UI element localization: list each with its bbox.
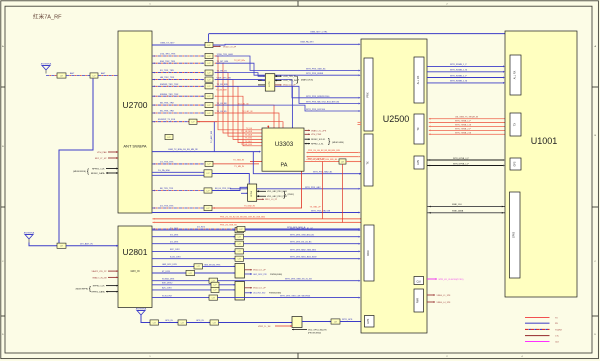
row B39/B4_TRX_TRX dashed wire bbox=[153, 95, 155, 97]
wire PRX_2G line2 bbox=[153, 222, 155, 224]
wire DIV_ANT to U2801 bbox=[66, 245, 118, 247]
svg-text:U2801: U2801 bbox=[122, 247, 147, 257]
wire ANT1 to FL2701 (dashed) bbox=[46, 75, 57, 77]
row B8_TRX_TRX dashed wire bbox=[153, 104, 155, 106]
inductor L2815 bbox=[235, 256, 244, 261]
wire PRX_2G line1 bbox=[153, 218, 155, 220]
wire WTR_RXMB_1_M bbox=[427, 82, 503, 84]
svg-text:TX_LB2_IN: TX_LB2_IN bbox=[242, 111, 253, 113]
arrow out of filter bbox=[215, 86, 216, 87]
wire DRX cont bbox=[244, 243, 359, 245]
arrow out of filter bbox=[215, 55, 216, 56]
wire WTR_GPS_1_P bbox=[427, 165, 503, 167]
wire DRX row 4G_RX2 top bbox=[153, 228, 155, 230]
wire DRX cont bbox=[244, 236, 359, 238]
legend CLK line bbox=[525, 341, 550, 343]
row LB_TRX dashed bbox=[153, 190, 155, 192]
pin VPA_2G bbox=[108, 151, 118, 153]
svg-text:PWDN(GSM): PWDN(GSM) bbox=[269, 293, 281, 295]
filter FL2707 bbox=[204, 170, 212, 177]
inductor L2803 bbox=[211, 287, 219, 292]
wire red row208 to PA bottom bbox=[212, 171, 302, 208]
wire trunk TX_ANT_SW vertical bbox=[253, 152, 361, 174]
pin VREG_L4 bbox=[427, 301, 435, 303]
svg-text:VDD2_LO_2P: VDD2_LO_2P bbox=[253, 270, 266, 272]
wire red TX route to PA top bbox=[215, 113, 280, 128]
svg-text:L27: L27 bbox=[238, 259, 241, 261]
pin VREG_L1 bbox=[427, 294, 435, 296]
svg-text:WTR_TXMB_2_P: WTR_TXMB_2_P bbox=[455, 128, 472, 130]
wire DRX row B2C_DRX bbox=[152, 250, 235, 252]
svg-text:WTR_PRX_GB2: WTR_PRX_GB2 bbox=[305, 187, 321, 189]
zone tick right bbox=[592, 86, 598, 88]
wire blue after FL2708 bbox=[212, 187, 247, 190]
svg-text:L27: L27 bbox=[93, 75, 96, 77]
wire blue to L2702 bbox=[215, 73, 265, 77]
wire red TX route 4 bbox=[215, 86, 262, 142]
wire into U2806 bbox=[203, 265, 236, 267]
svg-text:2G_PA_EN0: 2G_PA_EN0 bbox=[158, 169, 171, 172]
svg-text:WTR_RXMB_1_P: WTR_RXMB_1_P bbox=[450, 64, 467, 66]
wire PRX route WTR_PRX_B2/B25/2100 bbox=[216, 80, 359, 98]
arrow into filter bbox=[203, 86, 204, 88]
wire DRX row GB3_DRX bbox=[152, 265, 194, 267]
arrow out of filter bbox=[215, 72, 216, 73]
svg-text:TX_ANT_SW: TX_ANT_SW bbox=[210, 131, 213, 143]
wire PA out PRX1 bbox=[307, 152, 309, 154]
pin stub left L2702 bbox=[258, 79, 265, 81]
svg-text:WTR_RXMB_1_M: WTR_RXMB_1_M bbox=[450, 70, 467, 72]
pin VBAT2_2G_2P8 bbox=[305, 129, 310, 131]
svg-text:(MDM RFFE): (MDM RFFE) bbox=[73, 171, 86, 173]
wire vertical B28 to GSM_TX bbox=[213, 122, 215, 152]
svg-text:GPIO: GPIO bbox=[513, 232, 516, 238]
svg-text:B8_TRX_TRX: B8_TRX_TRX bbox=[160, 103, 174, 105]
wire red row121 to PA top bbox=[217, 122, 283, 129]
wire cont row229 bbox=[245, 228, 359, 230]
svg-text:L27: L27 bbox=[208, 63, 211, 65]
port ALL RX U2500 bbox=[414, 57, 424, 103]
wire WTR_TRX_GB2 long bbox=[152, 212, 359, 214]
svg-text:WTR_DRX_MB2_B: WTR_DRX_MB2_B bbox=[287, 227, 306, 229]
legend CTRL line bbox=[525, 335, 550, 337]
wire red TX route 2 bbox=[215, 73, 262, 137]
filter row 1 bbox=[205, 61, 213, 66]
svg-text:B1_TRX_TRX: B1_TRX_TRX bbox=[160, 70, 174, 72]
wire DRX row B_B1_DRX bbox=[152, 258, 235, 260]
svg-text:L27: L27 bbox=[214, 290, 217, 292]
svg-text:B2C_DRX: B2C_DRX bbox=[170, 249, 180, 251]
inductor L2802 bbox=[211, 282, 219, 287]
svg-text:TX_B34: TX_B34 bbox=[245, 138, 253, 140]
svg-text:}: } bbox=[296, 75, 299, 84]
port GPS U2500 bbox=[365, 316, 375, 328]
svg-text:ANTENNA: ANTENNA bbox=[24, 231, 35, 234]
wire WTR_TXMB_2_P bbox=[429, 130, 431, 132]
svg-text:WTR_RXMB_2_M: WTR_RXMB_2_M bbox=[450, 81, 467, 83]
svg-text:TX: TX bbox=[366, 161, 370, 165]
wire WTR_XO CLK magenta bbox=[427, 278, 437, 280]
pin RF2_LT_EN bbox=[108, 157, 118, 159]
zone tick left bbox=[1, 315, 5, 317]
svg-text:WTR_GPSB_1_P: WTR_GPSB_1_P bbox=[453, 163, 470, 165]
svg-text:GSM_TX_B2A_GS_BS_MB_RF: GSM_TX_B2A_GS_BS_MB_RF bbox=[168, 148, 199, 151]
port GPS out U2500 bbox=[414, 156, 424, 169]
svg-text:WTR_PRX_B5/B8: WTR_PRX_B5/B8 bbox=[306, 73, 324, 75]
filter FL2701 bbox=[57, 73, 66, 78]
svg-text:L27: L27 bbox=[60, 75, 63, 77]
svg-text:GPS_IN: GPS_IN bbox=[165, 320, 173, 322]
row B1_TRX_TRX dashed wire bbox=[153, 72, 155, 74]
svg-text:GSM_PA_SKY: GSM_PA_SKY bbox=[300, 41, 314, 44]
arrow into filter bbox=[203, 104, 204, 106]
svg-text:GSM_TX_SKY: GSM_TX_SKY bbox=[160, 42, 175, 44]
wire red TX route to PA top bbox=[215, 105, 275, 128]
svg-text:ALL RX: ALL RX bbox=[417, 75, 420, 84]
wire WTR_RXMB_1_P bbox=[427, 77, 503, 79]
wire into U2806 pin2 bbox=[195, 272, 236, 274]
wire DRX row 2G_DRX bbox=[152, 229, 235, 231]
wire WTR_PRX_GB2 long bbox=[230, 188, 359, 190]
inductor L2817 bbox=[186, 270, 195, 275]
pin stub right L2702 bbox=[275, 75, 282, 77]
filter row 6 bbox=[205, 103, 213, 108]
svg-text:B1/B28P_TX_B1S: B1/B28P_TX_B1S bbox=[158, 119, 176, 121]
svg-text:VREG_L1_1P8: VREG_L1_1P8 bbox=[437, 295, 452, 297]
pin VDD2_LO U2806 bbox=[245, 269, 253, 271]
wire DRX row 3G_DRX bbox=[152, 236, 235, 238]
svg-text:GPS: GPS bbox=[367, 318, 370, 323]
port PWR U2500 bbox=[414, 289, 424, 312]
svg-text:TX_B01: TX_B01 bbox=[245, 141, 253, 143]
wire DRX row 4G_DRX bbox=[152, 243, 235, 245]
filter FL2807 bbox=[210, 320, 219, 325]
svg-text:WTR_TXMB_2_M: WTR_TXMB_2_M bbox=[455, 132, 472, 134]
port PRX U2500 bbox=[364, 58, 373, 131]
wire WTR_TXMB_2_M bbox=[429, 133, 431, 135]
svg-text:VBAT2_2C_2P8: VBAT2_2C_2P8 bbox=[311, 129, 327, 132]
pin RFFE2_DATA U2801 bbox=[106, 291, 118, 293]
wire FL2702 to U2700 (dashed) bbox=[98, 75, 118, 77]
port ALL RX U1001 bbox=[510, 55, 521, 95]
svg-text:L27: L27 bbox=[197, 266, 200, 268]
row B3/B39_TRX_TRX dashed wire bbox=[153, 85, 155, 87]
wire WTR_GPS_0_P bbox=[427, 159, 503, 161]
svg-text:+PRX_2G_MB_GS2_B34_B39_B4: +PRX_2G_MB_GS2_B34_B39_B4 bbox=[306, 159, 338, 161]
svg-text:WTR_PRX_GM2_B1: WTR_PRX_GM2_B1 bbox=[306, 69, 326, 71]
filter FL2708 bbox=[204, 188, 212, 193]
svg-text:L27: L27 bbox=[168, 137, 171, 139]
filter FL2801 bbox=[57, 243, 66, 248]
svg-text:PRX_2G_GS_B2_B3_B8_B34_B39: PRX_2G_GS_B2_B3_B8_B34_B39 bbox=[308, 150, 341, 152]
pin stub salmon U2500 a bbox=[358, 121, 362, 123]
wire blue vertical into PA top bbox=[291, 86, 293, 128]
svg-text:L27: L27 bbox=[212, 297, 215, 299]
wire DRX cont bbox=[244, 250, 359, 252]
wire row63 to U2500 PRX bbox=[216, 63, 359, 75]
svg-text:ANT SW&PA: ANT SW&PA bbox=[123, 144, 147, 149]
svg-text:(MDM RFFE): (MDM RFFE) bbox=[76, 289, 89, 291]
svg-text:VRF2_1L_1M: VRF2_1L_1M bbox=[258, 326, 271, 328]
svg-text:SSBI_DATA: SSBI_DATA bbox=[452, 210, 464, 213]
row TX dashed 163.9 bbox=[153, 163, 155, 165]
svg-text:RF2_LT_0P: RF2_LT_0P bbox=[95, 158, 107, 160]
svg-text:ALL RX: ALL RX bbox=[514, 70, 517, 79]
svg-text:L27: L27 bbox=[181, 322, 184, 324]
svg-text:WTR_TXMB_1_P: WTR_TXMB_1_P bbox=[455, 121, 472, 123]
svg-text:B39/B4_TRX_TRX: B39/B4_TRX_TRX bbox=[160, 94, 179, 96]
svg-text:L27: L27 bbox=[208, 86, 211, 88]
arrow out FL2709 bbox=[214, 207, 215, 209]
svg-text:DIV_ANT_IN: DIV_ANT_IN bbox=[80, 242, 93, 245]
pin VDD_GB2_PRX_PWR1 bbox=[257, 190, 266, 192]
svg-text:RFFE2_DATA: RFFE2_DATA bbox=[91, 172, 105, 175]
svg-text:L27: L27 bbox=[238, 237, 241, 239]
inductor L2812 bbox=[235, 234, 244, 239]
svg-text:L27: L27 bbox=[208, 45, 211, 47]
wire red TX route 0 bbox=[215, 56, 263, 130]
svg-text:VDD2_LO_2P: VDD2_LO_2P bbox=[283, 85, 296, 87]
svg-text:TX_B08: TX_B08 bbox=[245, 134, 253, 136]
wire red TX route 1 bbox=[215, 63, 262, 133]
wire into U2704 pin2 bbox=[241, 192, 247, 194]
svg-text:B_B1_DRX: B_B1_DRX bbox=[170, 257, 181, 259]
filter row 4 bbox=[205, 84, 213, 89]
filter row 3 bbox=[205, 77, 213, 82]
pin RFFE2_CLK U2801 bbox=[106, 285, 118, 287]
wire GPS 3 bbox=[219, 322, 293, 324]
svg-text:L27: L27 bbox=[334, 321, 337, 323]
svg-text:RFFE2_2_SL: RFFE2_2_SL bbox=[311, 144, 324, 146]
svg-text:U3303: U3303 bbox=[275, 141, 294, 148]
svg-text:WTR_DRX_MB1_B1B_B1W: WTR_DRX_MB1_B1B_B1W bbox=[290, 257, 316, 259]
arrow out of filter bbox=[215, 79, 216, 80]
svg-text:VSW_TRX_HB: VSW_TRX_HB bbox=[217, 77, 232, 79]
pin RFFE2_SDATA bbox=[305, 143, 310, 145]
zone tick top bbox=[297, 1, 299, 6]
svg-text:HB_TRX_TRX: HB_TRX_TRX bbox=[160, 77, 175, 79]
svg-text:L27: L27 bbox=[238, 251, 241, 253]
wire GSM_SKY into U2500 bbox=[213, 43, 359, 46]
wire WTR_TXMB_1_M bbox=[429, 126, 431, 128]
arrow into filter bbox=[203, 72, 204, 74]
svg-text:TX_LB: TX_LB bbox=[246, 128, 253, 130]
balun L2702 bbox=[265, 74, 275, 91]
svg-text:L27: L27 bbox=[208, 96, 211, 98]
port TX U2500 bbox=[364, 134, 373, 186]
svg-text:TX_B3_B39: TX_B3_B39 bbox=[216, 90, 228, 92]
svg-text:GB2_DRX_PRI: GB2_DRX_PRI bbox=[253, 274, 267, 276]
svg-text:U2704: U2704 bbox=[251, 191, 253, 197]
svg-text:TX_HB_B39: TX_HB_B39 bbox=[241, 144, 253, 146]
svg-text:L27: L27 bbox=[207, 190, 210, 192]
pin LB_DRX out bbox=[245, 292, 253, 294]
svg-text:B5_TRX_TRX: B5_TRX_TRX bbox=[160, 111, 174, 113]
wire SSBI_DATA bbox=[427, 212, 505, 214]
svg-text:WTR_PRX_B1/2100: WTR_PRX_B1/2100 bbox=[306, 109, 326, 111]
filter FL2806 bbox=[178, 320, 187, 325]
wire GPS 4 bbox=[302, 321, 331, 323]
svg-text:L27: L27 bbox=[208, 164, 211, 166]
wire red TX route 5 bbox=[215, 96, 262, 146]
svg-text:TX_MT_B2x: TX_MT_B2x bbox=[234, 60, 245, 62]
svg-text:RFFE2_SCLK1: RFFE2_SCLK1 bbox=[311, 139, 326, 141]
wire red after FL2705 bbox=[197, 121, 217, 123]
filter row 7 bbox=[205, 110, 213, 115]
wire WTR_TXMB_1_P bbox=[429, 122, 431, 124]
arrow out of filter bbox=[215, 96, 216, 97]
inductor L2801 bbox=[209, 278, 218, 283]
zone tick left bbox=[1, 206, 5, 208]
svg-text:TX: TX bbox=[416, 127, 420, 131]
wire PRX3 cont bbox=[346, 161, 361, 163]
filter row 2 bbox=[205, 70, 213, 75]
svg-text:L27: L27 bbox=[153, 322, 156, 324]
wire SSBI_CLK bbox=[427, 206, 505, 208]
svg-text:WTR_GPS: WTR_GPS bbox=[342, 319, 353, 321]
svg-text:4G_DRX: 4G_DRX bbox=[170, 242, 179, 244]
svg-text:U2700: U2700 bbox=[122, 100, 147, 110]
svg-text:WTR_DRX_MB2_GB5_B66: WTR_DRX_MB2_GB5_B66 bbox=[290, 249, 317, 251]
inductor L2811 bbox=[235, 228, 244, 233]
pin VRF2 into U2803 bbox=[275, 325, 292, 327]
svg-text:(PMIC): (PMIC) bbox=[288, 194, 295, 196]
svg-text:VDD2_LO_2P: VDD2_LO_2P bbox=[223, 46, 237, 48]
svg-text:ANTENNA: ANTENNA bbox=[136, 308, 147, 311]
wire vertical from top bus into FL2703 bbox=[208, 34, 210, 41]
svg-text:B39_DRX2: B39_DRX2 bbox=[162, 283, 173, 285]
svg-text:GPS_IN: GPS_IN bbox=[196, 320, 204, 322]
wire FL2701 to FL2702 (dashed) bbox=[66, 75, 90, 77]
svg-text:TX_GB2_2P: TX_GB2_2P bbox=[310, 206, 322, 208]
svg-text:L2702: L2702 bbox=[269, 81, 271, 86]
pin GPS_LNA_EN bbox=[292, 329, 307, 331]
bus GSM_SKY_CTRL top bbox=[209, 33, 506, 35]
wire blue to L2702 bbox=[215, 79, 265, 82]
pin stub salmon U2500 b bbox=[358, 124, 362, 126]
svg-text:L27: L27 bbox=[60, 246, 63, 248]
wire row56 to U2500 PRX bbox=[216, 56, 359, 71]
pin VDD2_LO_2P U2704 bbox=[257, 198, 264, 200]
wire SCN cont bbox=[218, 297, 359, 299]
svg-text:L27: L27 bbox=[208, 72, 211, 74]
filter FL2703 bbox=[205, 42, 213, 47]
wire DIV trunk vertical from FL2702 bbox=[59, 79, 93, 243]
svg-text:SCN34_DRX: SCN34_DRX bbox=[162, 279, 175, 281]
svg-text:L27: L27 bbox=[341, 161, 344, 163]
svg-text:VPH_PWR: VPH_PWR bbox=[311, 134, 322, 136]
svg-text:L27: L27 bbox=[238, 244, 241, 246]
filter FL2706 bbox=[205, 161, 213, 166]
filter FL2805 bbox=[150, 320, 159, 325]
arrow into filter bbox=[203, 79, 204, 81]
svg-text:PRX_2G_GS_B2_B3_B8_B34_B39_B1_: PRX_2G_GS_B2_B3_B8_B34_B39_B1_B28_B66 bbox=[220, 217, 266, 219]
RF front-end U2700 bbox=[118, 31, 152, 213]
port TX out U2500 bbox=[414, 114, 424, 144]
arrow out of filter bbox=[215, 104, 216, 105]
svg-text:(FRONT-END): (FRONT-END) bbox=[308, 332, 321, 334]
svg-text:WTR_XO_CLK/CX0(TCXO): WTR_XO_CLK/CX0(TCXO) bbox=[439, 279, 464, 281]
svg-text:L27: L27 bbox=[207, 208, 210, 210]
svg-text:VDD2_LO_2P: VDD2_LO_2P bbox=[253, 288, 266, 290]
zone tick left bbox=[1, 86, 5, 88]
svg-text:4G_RX2: 4G_RX2 bbox=[197, 227, 206, 229]
svg-text:RFFE2_DATA: RFFE2_DATA bbox=[92, 291, 106, 294]
baseband U1001 bbox=[505, 31, 577, 297]
svg-text:PWR: PWR bbox=[417, 297, 420, 303]
svg-text:PA: PA bbox=[281, 163, 288, 169]
row B28_TRX dashed wire bbox=[153, 121, 155, 123]
svg-text:红米7A_RF: 红米7A_RF bbox=[33, 13, 62, 21]
row 2G_PA_EN0 bbox=[152, 171, 204, 173]
filter FL2702 bbox=[90, 73, 98, 78]
svg-text:RFFE2_CLK: RFFE2_CLK bbox=[92, 169, 105, 171]
svg-text:4T_DRX: 4T_DRX bbox=[162, 271, 171, 273]
pin VDD_GB2_PRX_PWR2 bbox=[257, 195, 266, 197]
wire CM_GSM_TX_TRX2E_IN bbox=[429, 118, 431, 120]
svg-text:VREG_L4_1P8: VREG_L4_1P8 bbox=[437, 302, 452, 304]
inductor L2814 bbox=[235, 249, 244, 254]
pin RFFE2_SCLK bbox=[305, 138, 310, 140]
port CLK U2500 bbox=[414, 277, 424, 285]
wire red TX route 3 bbox=[215, 80, 262, 140]
svg-text:VPH_PA8: VPH_PA8 bbox=[97, 151, 107, 154]
wire into U2802 pin2 bbox=[219, 289, 235, 291]
svg-text:PRX: PRX bbox=[366, 92, 370, 98]
wire into U2802 bbox=[219, 284, 235, 286]
inductor L2816 bbox=[194, 264, 203, 269]
wire red row163 to PA bbox=[213, 163, 259, 165]
wire TX_GB2_IN line bbox=[250, 160, 262, 162]
svg-text:WTR_DRX_GB8_3G_3L_B3: WTR_DRX_GB8_3G_3L_B3 bbox=[285, 279, 313, 281]
svg-text:GB3_B2C_DRX: GB3_B2C_DRX bbox=[162, 264, 178, 266]
wire red vertical right of PA bbox=[322, 162, 324, 219]
row 2G_PA_EN1 bbox=[152, 174, 204, 176]
svg-text:}: } bbox=[283, 189, 286, 199]
pin stub right L2702 bbox=[275, 84, 282, 86]
svg-text:WTR_DRX_GB3_L4E_WDVB26: WTR_DRX_GB3_L4E_WDVB26 bbox=[280, 295, 311, 297]
svg-text:2G_TRX_TRX: 2G_TRX_TRX bbox=[160, 161, 174, 163]
svg-text:PRX_2G_GS8_3B: PRX_2G_GS8_3B bbox=[220, 224, 237, 226]
filter FL2808 bbox=[331, 319, 340, 324]
svg-text:L27: L27 bbox=[240, 229, 243, 231]
port DRX U2500 bbox=[364, 225, 374, 281]
svg-text:L27: L27 bbox=[213, 322, 216, 324]
wire DRX row B39 bbox=[152, 284, 211, 286]
svg-text:RFFE2_CLK: RFFE2_CLK bbox=[93, 286, 105, 288]
svg-text:ANT: ANT bbox=[70, 72, 75, 75]
antenna ANT1 bbox=[42, 66, 50, 74]
wire DRX row SCN bbox=[152, 297, 209, 299]
svg-text:TX_GB2_IN: TX_GB2_IN bbox=[244, 206, 255, 208]
svg-text:WTR_PRX_MB2_B1: WTR_PRX_MB2_B1 bbox=[313, 171, 333, 173]
spare component DNP bbox=[165, 134, 173, 139]
svg-text:B8_LB_PRX_RFF: B8_LB_PRX_RFF bbox=[215, 188, 232, 190]
wire PA out PRX3 with filter bbox=[305, 161, 339, 163]
wire DRX row 4T_DRX bbox=[152, 272, 186, 274]
svg-text:RFIO_LO_2P: RFIO_LO_2P bbox=[265, 199, 278, 201]
svg-text:GRX_IN: GRX_IN bbox=[131, 270, 140, 273]
inductor L2813 bbox=[235, 241, 244, 246]
wire GSM_TX into PA bbox=[152, 151, 260, 153]
filter FL2709 bbox=[204, 205, 212, 210]
arrow out of filter bbox=[215, 63, 216, 64]
svg-text:CLK: CLK bbox=[416, 281, 421, 283]
zone tick right bbox=[592, 315, 598, 317]
pin RFFE2_CLK bbox=[106, 168, 118, 170]
svg-text:TX: TX bbox=[513, 123, 517, 127]
svg-text:DRX: DRX bbox=[366, 250, 370, 256]
